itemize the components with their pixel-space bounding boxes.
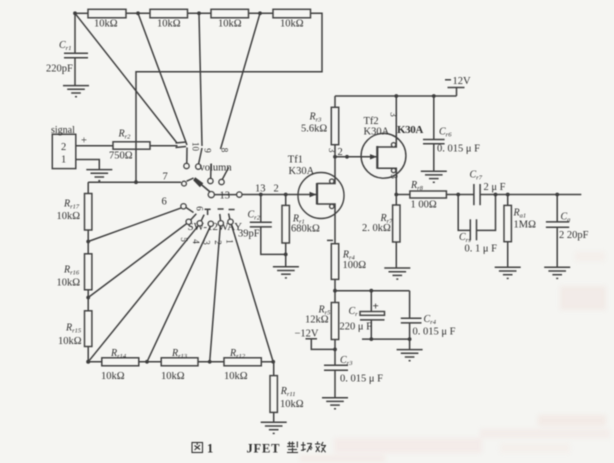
ground (Cr3) bbox=[322, 398, 348, 409]
node J1 bbox=[73, 11, 77, 15]
svg-text:Cr7: Cr7 bbox=[470, 170, 483, 182]
svg-text:JFET: JFET bbox=[247, 442, 281, 456]
svg-text:Ra1: Ra1 bbox=[513, 208, 527, 220]
resistor Rr3 5.6k bbox=[334, 96, 336, 107]
svg-text:5.6kΩ: 5.6kΩ bbox=[301, 124, 327, 135]
svg-text:10kΩ: 10kΩ bbox=[58, 336, 82, 347]
capacitor Cr3 0.015uF bbox=[324, 364, 348, 366]
svg-text:8: 8 bbox=[220, 148, 230, 153]
contact 8 bbox=[219, 179, 224, 184]
op-amp Tf1 (JFET) bbox=[288, 155, 344, 244]
wiper arrow bbox=[202, 185, 211, 192]
resistor 10k (ladder 2) bbox=[150, 9, 188, 17]
svg-text:750Ω: 750Ω bbox=[109, 151, 133, 162]
svg-text:Rr14: Rr14 bbox=[110, 348, 127, 360]
wire row to contact 7 bbox=[88, 181, 181, 183]
svg-text:−12V: −12V bbox=[295, 329, 319, 340]
wire bbox=[87, 290, 89, 311]
svg-text:Cr3: Cr3 bbox=[340, 355, 353, 367]
wire fan line contact 4 to corner bbox=[88, 226, 198, 362]
svg-text:SW-12WAY: SW-12WAY bbox=[188, 221, 243, 233]
svg-text:signal: signal bbox=[51, 125, 75, 136]
node J2 bbox=[136, 11, 140, 15]
rotary switch SW-12WAY bbox=[176, 142, 243, 245]
caption hanzi TU (图) bbox=[192, 443, 203, 453]
svg-text:Tf2: Tf2 bbox=[364, 116, 379, 127]
pivot pole 13 bbox=[208, 192, 214, 198]
resistor Rr8 100 (output) bbox=[396, 194, 410, 196]
svg-text:10: 10 bbox=[191, 142, 201, 152]
contact 9 bbox=[196, 164, 201, 169]
svg-text:10kΩ: 10kΩ bbox=[57, 211, 81, 222]
wire top right elbow down to mid rail bbox=[136, 13, 322, 182]
svg-text:10kΩ: 10kΩ bbox=[280, 19, 304, 30]
svg-text:10kΩ: 10kΩ bbox=[161, 371, 185, 382]
resistor Ra1 1M bbox=[507, 195, 509, 206]
wire bottom row caps bbox=[362, 338, 410, 340]
caption hanzi XING (型) bbox=[287, 442, 298, 453]
resistor Rr13 10k bbox=[161, 358, 198, 366]
svg-text:3: 3 bbox=[202, 240, 212, 245]
svg-text:Crs: Crs bbox=[459, 232, 471, 244]
power -12V terminal bbox=[448, 87, 465, 89]
svg-text:K30A: K30A bbox=[364, 127, 390, 138]
wire bbox=[139, 361, 161, 363]
svg-text:220 μ F: 220 μ F bbox=[340, 322, 373, 333]
svg-text:2: 2 bbox=[213, 240, 223, 245]
svg-text:4: 4 bbox=[191, 239, 201, 244]
node rail Cr6 bbox=[432, 94, 436, 98]
ground (Cr6) bbox=[421, 171, 447, 182]
ground (Cr2/Rr1) bbox=[273, 267, 299, 278]
wire R750 to switch contact 11 bbox=[150, 145, 178, 147]
svg-text:12V: 12V bbox=[453, 76, 472, 87]
wire output bbox=[496, 194, 582, 196]
wire +rail -12V bbox=[335, 95, 457, 97]
resistor 10k (ladder 1) bbox=[88, 9, 126, 17]
svg-text:1: 1 bbox=[225, 239, 235, 244]
node rail drain bbox=[394, 94, 398, 98]
capacitor Ca 220pF bbox=[556, 195, 558, 222]
svg-text:100Ω: 100Ω bbox=[343, 260, 367, 271]
wire fan line contact 2 to bottom rail bbox=[210, 226, 221, 362]
svg-text:Cr1: Cr1 bbox=[59, 40, 71, 52]
contact 5 bbox=[186, 219, 191, 224]
svg-text:Cr4: Cr4 bbox=[424, 314, 437, 326]
wire fan line J4 to contact 8 bbox=[221, 13, 261, 149]
svg-text:Rr11: Rr11 bbox=[280, 386, 296, 398]
svg-text:10kΩ: 10kΩ bbox=[224, 371, 248, 382]
resistor Rr2 750 bbox=[113, 142, 150, 149]
resistor Rr17 10k bbox=[85, 194, 92, 231]
wire fan line contact 3 to bottom rail bbox=[147, 227, 210, 362]
wire top ladder rail bbox=[75, 12, 88, 14]
svg-text:Cr2: Cr2 bbox=[248, 210, 261, 222]
resistor 10k (ladder 4) bbox=[273, 9, 311, 17]
wire fan line contact 1 to Rr11 node bbox=[231, 224, 273, 361]
pink scan artifacts bbox=[300, 252, 610, 462]
resistor Rr5 12k bbox=[331, 303, 338, 340]
node J4 bbox=[258, 11, 262, 15]
svg-text:9: 9 bbox=[203, 148, 213, 153]
node source row bbox=[333, 289, 337, 293]
ground (signal) bbox=[86, 170, 112, 181]
svg-text:12kΩ: 12kΩ bbox=[305, 315, 329, 326]
wire fan line contact 5 to left chain bbox=[88, 224, 187, 298]
svg-text:Rr15: Rr15 bbox=[65, 323, 82, 335]
svg-text:volumn: volumn bbox=[200, 163, 233, 174]
svg-text:2: 2 bbox=[61, 142, 66, 153]
svg-text:2 μ F: 2 μ F bbox=[484, 182, 506, 193]
node Tf2 source bbox=[394, 193, 398, 197]
wire bbox=[87, 230, 89, 254]
svg-text:2: 2 bbox=[274, 183, 279, 194]
resistor 10k (ladder 3) bbox=[211, 9, 249, 17]
svg-text:+: + bbox=[81, 136, 87, 147]
ground (Rr11) bbox=[261, 422, 287, 433]
svg-text:Tf1: Tf1 bbox=[288, 155, 303, 166]
resistor Rr4 100 bbox=[331, 244, 338, 280]
contact 8b bbox=[208, 178, 213, 183]
contact 4 bbox=[197, 221, 202, 226]
resistor Rr7 2.0k bbox=[395, 195, 397, 206]
capacitor Cr4 0.015uF bbox=[409, 291, 411, 319]
svg-text:0. 015 μ F: 0. 015 μ F bbox=[413, 327, 456, 338]
node J3 bbox=[197, 11, 201, 15]
svg-text:Rr16: Rr16 bbox=[63, 265, 80, 277]
svg-text:220pF: 220pF bbox=[46, 64, 73, 75]
svg-text:2. 0kΩ: 2. 0kΩ bbox=[362, 223, 391, 234]
resistor Rr15 10k bbox=[85, 311, 92, 347]
contact 10 bbox=[184, 163, 189, 168]
svg-text:6: 6 bbox=[162, 197, 167, 208]
svg-text:Rr8: Rr8 bbox=[410, 180, 424, 192]
contact 11 ticks bbox=[176, 142, 187, 143]
capacitor Cr7 2uF bbox=[473, 184, 475, 205]
svg-text:3: 3 bbox=[389, 112, 399, 117]
node 2 bbox=[284, 193, 288, 197]
capacitor Crs 0.1uF (parallel) bbox=[458, 195, 470, 231]
contact 6 bbox=[181, 204, 186, 209]
svg-text:1MΩ: 1MΩ bbox=[514, 220, 537, 231]
caption 图1 JFET bbox=[192, 442, 326, 453]
svg-text:1 00Ω: 1 00Ω bbox=[411, 200, 437, 211]
svg-text:10kΩ: 10kΩ bbox=[94, 19, 118, 30]
resistor Rr11 10k bbox=[273, 362, 275, 376]
resistor Rr14 10k bbox=[102, 358, 139, 366]
capacitor Cr2 39pF bbox=[260, 195, 262, 223]
wire signal to R750 bbox=[76, 145, 113, 147]
node after Rr8 bbox=[456, 193, 460, 197]
wire source row bbox=[335, 290, 410, 292]
wire left chain top bbox=[87, 182, 89, 193]
svg-text:39pF: 39pF bbox=[238, 229, 260, 240]
wire to Rr11 bbox=[261, 361, 273, 363]
caption hanzi XIAO (效) bbox=[315, 442, 326, 453]
wire bbox=[198, 361, 224, 363]
contact 7 bbox=[182, 181, 187, 186]
wire fan line contact 6 to left chain bbox=[88, 208, 181, 242]
signal source box bbox=[52, 134, 76, 168]
wire node (vertical joins signal row) bbox=[134, 180, 138, 184]
svg-text:5: 5 bbox=[179, 237, 189, 242]
svg-text:Rr13: Rr13 bbox=[171, 348, 188, 360]
svg-text:10kΩ: 10kΩ bbox=[280, 399, 304, 410]
wire fan line J3 to contact 9 bbox=[199, 13, 202, 146]
capacitor Cr9 220uF electrolytic bbox=[370, 291, 372, 312]
svg-text:2 20pF: 2 20pF bbox=[559, 230, 589, 241]
ground (Cr4) bbox=[397, 350, 423, 361]
resistor Rr16 10k bbox=[85, 254, 92, 290]
svg-text:Rr17: Rr17 bbox=[63, 199, 80, 211]
svg-text:10kΩ: 10kΩ bbox=[101, 371, 125, 382]
svg-text:0. 015 μ F: 0. 015 μ F bbox=[437, 144, 480, 155]
svg-text:1: 1 bbox=[61, 155, 66, 166]
svg-text:Rr3: Rr3 bbox=[309, 112, 323, 124]
ground (Ca) bbox=[544, 267, 570, 278]
ground (Ra1) bbox=[495, 267, 521, 278]
svg-text:1: 1 bbox=[207, 442, 213, 456]
svg-text:Rr2: Rr2 bbox=[118, 129, 132, 141]
svg-text:6: 6 bbox=[195, 206, 205, 211]
capacitor Cr6 0.015uF bbox=[433, 96, 435, 140]
svg-text:0. 1 μ F: 0. 1 μ F bbox=[465, 244, 498, 255]
svg-text:K30A: K30A bbox=[289, 166, 315, 177]
svg-text:10kΩ: 10kΩ bbox=[157, 19, 181, 30]
contact 1 tick bbox=[229, 209, 235, 211]
svg-text:3: 3 bbox=[389, 174, 399, 179]
wire left chain bottom corner bbox=[88, 347, 102, 362]
svg-text:7: 7 bbox=[163, 172, 168, 183]
node 2 drain junction bbox=[333, 155, 337, 159]
wire fan line J2 to contact 10 bbox=[138, 13, 187, 145]
caption hanzi CHANG (场) bbox=[301, 442, 312, 452]
svg-text:Ca: Ca bbox=[561, 212, 571, 224]
transistor Tf2 (JFET) bbox=[361, 96, 423, 195]
ground (under Ct) bbox=[63, 86, 89, 97]
svg-text:13: 13 bbox=[255, 183, 266, 194]
pin dash (Tf1 source) bbox=[327, 239, 333, 241]
svg-text:Cr: Cr bbox=[349, 306, 359, 318]
contact 3 tick T bbox=[205, 208, 211, 210]
svg-text:10kΩ: 10kΩ bbox=[218, 19, 242, 30]
svg-text:Cr6: Cr6 bbox=[439, 127, 452, 139]
wire pole to node 13 bbox=[242, 194, 317, 196]
resistor Rr1 680k bbox=[285, 195, 287, 206]
svg-text:10kΩ: 10kΩ bbox=[57, 278, 81, 289]
svg-text:+: + bbox=[373, 301, 379, 313]
capacitor Ct 220pF bbox=[74, 13, 76, 53]
svg-text:680kΩ: 680kΩ bbox=[291, 224, 320, 235]
node 13 bbox=[259, 193, 263, 197]
ground (Rr7) bbox=[384, 268, 410, 279]
svg-text:13: 13 bbox=[220, 191, 231, 202]
wire Tf2 gate bbox=[335, 156, 377, 158]
resistor Rr12 10k bbox=[224, 358, 261, 366]
svg-text:K30A: K30A bbox=[397, 124, 423, 136]
svg-text:0. 015 μ F: 0. 015 μ F bbox=[340, 374, 383, 385]
svg-text:Rr12: Rr12 bbox=[229, 348, 246, 360]
wire signal pin1 to ground bbox=[76, 160, 100, 170]
contact 2 tick bbox=[218, 208, 224, 210]
wire fan line J1 to contact 11 bbox=[75, 13, 177, 143]
